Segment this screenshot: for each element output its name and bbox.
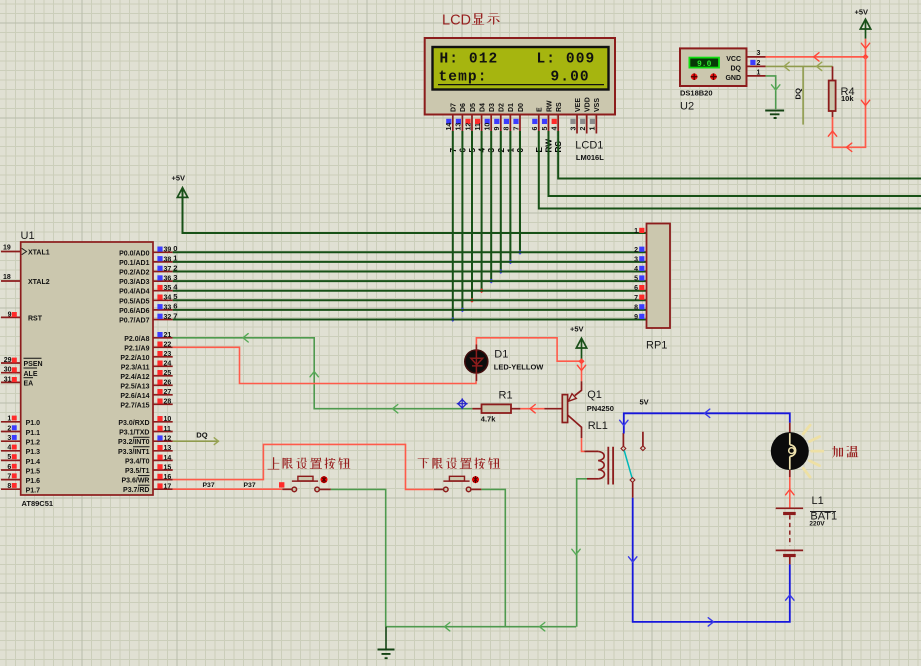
svg-text:3: 3 xyxy=(570,127,577,131)
wire SW1 to ground rail xyxy=(320,489,386,626)
wire LED anode to +5V node xyxy=(476,338,581,361)
svg-text:LCD1: LCD1 xyxy=(575,140,603,152)
label LCD显示 title xyxy=(442,13,500,29)
svg-text:8: 8 xyxy=(634,304,638,311)
svg-text:7: 7 xyxy=(634,295,638,302)
pin 24 P2.3 xyxy=(153,361,173,368)
pin 1 U2 GND xyxy=(747,69,766,76)
net label 5 xyxy=(173,292,178,301)
wire U2 GND to ground xyxy=(766,76,780,109)
svg-text:LED-YELLOW: LED-YELLOW xyxy=(494,363,544,372)
button SW2 下限 xyxy=(443,476,479,492)
svg-text:P3.4/T0: P3.4/T0 xyxy=(125,458,150,465)
wire Q1 collector to coil xyxy=(582,438,585,451)
svg-text:P0.7/AD7: P0.7/AD7 xyxy=(119,318,149,325)
pin 25 P2.4 xyxy=(153,370,173,377)
svg-text:29: 29 xyxy=(4,357,12,364)
svg-text:GND: GND xyxy=(725,75,741,82)
net label 5V xyxy=(640,398,649,407)
svg-text:10k: 10k xyxy=(841,94,854,103)
svg-text:1: 1 xyxy=(757,69,761,76)
svg-text:37: 37 xyxy=(164,266,172,273)
svg-text:4: 4 xyxy=(552,127,559,131)
wire P3.6 to button SW2 xyxy=(173,444,444,489)
svg-text:25: 25 xyxy=(164,370,172,377)
svg-text:1: 1 xyxy=(634,228,638,235)
pin 4 lcd RS xyxy=(552,115,559,132)
pin 1 P1.0 xyxy=(1,416,21,423)
pin 13 P3.3 xyxy=(153,445,173,452)
svg-text:22: 22 xyxy=(164,342,172,349)
wire lcd D3 to P0.3 xyxy=(490,131,492,281)
pin 35 P0.4 xyxy=(153,285,173,292)
wire P0.0 to RP1 pin2 xyxy=(173,251,647,253)
junction D7/P0.7 xyxy=(450,317,455,322)
wire P0.6 to RP1 pin8 xyxy=(173,309,647,311)
pin 12 lcd D5 xyxy=(465,115,472,132)
svg-text:RP1: RP1 xyxy=(646,340,667,352)
wire P3.7 to button SW1 xyxy=(173,488,292,490)
svg-text:3: 3 xyxy=(7,435,11,442)
svg-text:28: 28 xyxy=(164,399,172,406)
svg-text:+5V: +5V xyxy=(172,174,186,183)
relay NO contact xyxy=(630,478,635,498)
pin 3 P1.2 xyxy=(1,435,21,442)
svg-text:RS: RS xyxy=(556,102,563,112)
wire P0.1 to RP1 pin3 xyxy=(173,261,647,263)
wire lcd RW to right edge xyxy=(549,131,921,196)
pin 9 RST xyxy=(1,311,21,318)
svg-text:D6: D6 xyxy=(460,103,467,112)
svg-text:P1.7: P1.7 xyxy=(26,488,41,495)
svg-text:6: 6 xyxy=(634,285,638,292)
relay NC contact stub xyxy=(640,432,645,451)
svg-text:RL1: RL1 xyxy=(588,420,608,432)
svg-text:17: 17 xyxy=(164,484,172,491)
svg-text:P2.7/A15: P2.7/A15 xyxy=(120,402,149,409)
svg-text:P1.0: P1.0 xyxy=(26,420,41,427)
net label P37 xyxy=(203,482,215,489)
ground (bottom) xyxy=(378,627,395,659)
net label 4 xyxy=(478,148,487,153)
ground (top right) xyxy=(765,111,784,119)
pin 7 P1.6 xyxy=(1,473,21,480)
svg-text:XTAL2: XTAL2 xyxy=(28,279,50,286)
pin 33 P0.6 xyxy=(153,304,173,311)
junction D0/P0.0 xyxy=(518,250,523,255)
svg-text:P37: P37 xyxy=(244,482,256,489)
relay common contact xyxy=(621,433,626,451)
transistor Q1 PN4250 xyxy=(544,381,614,438)
pin 14 lcd D7 xyxy=(446,115,453,132)
wire +5V rail to RP1 pin1 xyxy=(183,189,647,234)
svg-text:U2: U2 xyxy=(680,101,694,113)
svg-text:P3.0/RXD: P3.0/RXD xyxy=(118,420,149,427)
svg-text:VCC: VCC xyxy=(726,56,741,63)
svg-text:P1.6: P1.6 xyxy=(26,478,41,485)
svg-text:L1: L1 xyxy=(812,495,824,507)
lcd LCD1 LM016L xyxy=(425,38,615,162)
resistor R4 10k xyxy=(829,66,855,117)
svg-text:P3.2/INT0: P3.2/INT0 xyxy=(118,439,150,446)
wire P0.4 to RP1 pin6 xyxy=(173,290,647,292)
svg-text:12: 12 xyxy=(164,436,172,443)
svg-text:EA: EA xyxy=(24,381,34,388)
pin 3 U2 VCC xyxy=(747,50,766,57)
pin 26 P2.5 xyxy=(153,380,173,387)
svg-text:1: 1 xyxy=(7,416,11,423)
pin 2 RP1 xyxy=(634,247,644,254)
button SW1 上限 xyxy=(292,476,328,492)
wire P0.3 to RP1 pin5 xyxy=(173,280,647,282)
svg-text:32: 32 xyxy=(164,314,172,321)
wire lcd D2 to P0.2 xyxy=(500,131,502,272)
svg-text:P0.5/AD5: P0.5/AD5 xyxy=(119,298,149,305)
svg-text:31: 31 xyxy=(4,376,12,383)
svg-text:19: 19 xyxy=(3,244,11,251)
svg-text:P0.2/AD2: P0.2/AD2 xyxy=(119,270,149,277)
svg-text:8: 8 xyxy=(504,127,511,131)
svg-text:11: 11 xyxy=(475,123,482,131)
svg-text:P3.1/TXD: P3.1/TXD xyxy=(119,430,149,437)
pin 4 P1.3 xyxy=(1,445,21,452)
net label 2 xyxy=(497,148,506,153)
pin 15 P3.5 xyxy=(153,464,173,471)
wire SW2 to ground rail xyxy=(471,489,505,626)
pin 8 P1.7 xyxy=(1,483,21,490)
svg-text:3: 3 xyxy=(634,256,638,263)
svg-text:P1.5: P1.5 xyxy=(26,468,41,475)
wire DQ from P3.2 xyxy=(173,438,219,445)
svg-text:5: 5 xyxy=(542,127,549,131)
wire lcd D7 to P0.7 xyxy=(452,131,454,320)
svg-text:+5V: +5V xyxy=(855,8,869,17)
net label 0 xyxy=(173,244,177,253)
svg-text:Q1: Q1 xyxy=(587,389,602,401)
svg-text:AT89C51: AT89C51 xyxy=(22,499,54,508)
svg-text:P2.0/A8: P2.0/A8 xyxy=(124,336,149,343)
svg-text:35: 35 xyxy=(164,285,172,292)
pin 5 RP1 xyxy=(634,275,644,282)
net label RS xyxy=(554,141,563,153)
svg-text:DQ: DQ xyxy=(794,88,803,99)
svg-text:VEE: VEE xyxy=(575,98,582,112)
junction D1/P0.1 xyxy=(508,259,513,264)
net label 2 xyxy=(173,263,177,272)
svg-text:+5V: +5V xyxy=(570,325,584,334)
pin 34 P0.5 xyxy=(153,295,173,302)
svg-text:4.7k: 4.7k xyxy=(481,415,496,424)
pin 16 P3.6 xyxy=(153,474,173,481)
pin 27 P2.6 xyxy=(153,389,173,396)
pin 12 P3.2 xyxy=(153,435,173,442)
svg-text:6: 6 xyxy=(532,127,539,131)
pin 3 lcd VEE xyxy=(570,115,577,134)
svg-text:D2: D2 xyxy=(499,103,506,112)
state square P37 net xyxy=(279,482,284,487)
svg-text:LM016L: LM016L xyxy=(576,153,604,162)
svg-text:P2.3/A11: P2.3/A11 xyxy=(121,364,150,371)
svg-text:11: 11 xyxy=(164,426,172,433)
svg-text:D5: D5 xyxy=(470,103,477,112)
relay blade (cyan) xyxy=(624,451,632,478)
svg-text:D3: D3 xyxy=(489,103,496,112)
pin 19 XTAL1 xyxy=(1,244,21,251)
pin 5 lcd RW xyxy=(542,115,549,132)
sensor U2 DS18B20 xyxy=(680,48,747,112)
pin 31 EA xyxy=(1,376,21,383)
wire lamp to battery + xyxy=(786,477,794,508)
wire R1 to Q1 base xyxy=(520,405,544,413)
junction D2/P0.2 xyxy=(498,269,503,274)
pin 9 RP1 xyxy=(634,314,644,321)
svg-text:30: 30 xyxy=(4,367,12,374)
svg-text:14: 14 xyxy=(164,455,172,462)
pin 7 RP1 xyxy=(634,295,644,302)
svg-text:PN4250: PN4250 xyxy=(587,404,614,413)
net label 6 xyxy=(173,302,177,311)
relay core xyxy=(608,447,613,485)
svg-text:P2.2/A10: P2.2/A10 xyxy=(120,355,149,362)
junction D5/P0.5 xyxy=(470,298,475,303)
wire P2.0 to R1 left xyxy=(173,334,473,413)
pin 14 P3.4 xyxy=(153,455,173,462)
pin 37 P0.2 xyxy=(153,266,173,273)
label 加温 xyxy=(832,446,858,458)
svg-text:16: 16 xyxy=(164,474,172,481)
svg-text:D1: D1 xyxy=(508,103,515,112)
svg-text:1: 1 xyxy=(590,127,597,131)
svg-text:9.00: 9.00 xyxy=(551,70,590,86)
svg-text:13: 13 xyxy=(164,445,172,452)
svg-text:9.0: 9.0 xyxy=(697,60,712,69)
svg-text:220V: 220V xyxy=(809,521,825,528)
svg-text:P2.1/A9: P2.1/A9 xyxy=(124,345,149,352)
wire DQ net stub down xyxy=(802,66,804,124)
pin 9 lcd D2 xyxy=(494,115,501,132)
svg-text:LCD: LCD xyxy=(442,13,471,29)
svg-text:P1.1: P1.1 xyxy=(26,430,41,437)
svg-text:2: 2 xyxy=(634,247,638,254)
pin 2 lcd VDD xyxy=(580,115,587,134)
wire P0.5 to RP1 pin7 xyxy=(173,299,647,301)
svg-text:2: 2 xyxy=(757,60,761,67)
svg-text:33: 33 xyxy=(164,304,172,311)
svg-text:R1: R1 xyxy=(499,390,513,402)
svg-text:P0.1/AD1: P0.1/AD1 xyxy=(119,260,149,267)
wire lcd D5 to P0.5 xyxy=(471,131,473,300)
svg-text:D0: D0 xyxy=(518,103,525,112)
svg-text:P0.4/AD4: P0.4/AD4 xyxy=(119,289,149,296)
svg-text:VSS: VSS xyxy=(594,98,601,112)
pin 18 XTAL2 xyxy=(1,274,21,281)
led D1 LED-YELLOW xyxy=(465,345,544,382)
net label 6 xyxy=(458,148,467,153)
relay RL1 coil xyxy=(585,451,605,478)
svg-text:P0.3/AD3: P0.3/AD3 xyxy=(119,279,149,286)
pin 13 lcd D6 xyxy=(456,115,463,132)
wire 5V net: relay common to lamp top xyxy=(620,409,790,433)
wire relay NO to battery - (blue loop) xyxy=(629,498,795,626)
wire lcd RS to right edge xyxy=(558,131,921,179)
net label 1 xyxy=(173,254,178,263)
svg-text:D1: D1 xyxy=(494,349,508,361)
svg-text:5: 5 xyxy=(7,454,11,461)
pin 6 RP1 xyxy=(634,285,644,292)
svg-text:5: 5 xyxy=(634,276,638,283)
svg-text:4: 4 xyxy=(634,266,638,273)
wire P0.7 to RP1 pin9 xyxy=(173,319,647,321)
net label 4 xyxy=(173,283,178,292)
pin 22 P2.1 xyxy=(153,342,173,349)
svg-text:34: 34 xyxy=(164,295,172,302)
wire P2.1 to LED cathode xyxy=(173,347,476,383)
pin 30 ALE xyxy=(1,367,21,374)
pin 8 lcd D1 xyxy=(504,115,511,132)
svg-text:3: 3 xyxy=(757,50,761,57)
junction D6/P0.6 xyxy=(460,307,465,312)
svg-text:D4: D4 xyxy=(479,103,486,112)
svg-text:12: 12 xyxy=(465,123,472,131)
pin 17 P3.7 xyxy=(153,483,173,490)
svg-text:H: 012: H: 012 xyxy=(440,52,499,68)
svg-text:18: 18 xyxy=(3,274,11,281)
svg-text:7: 7 xyxy=(513,127,520,131)
pin 10 lcd D3 xyxy=(485,115,492,132)
pin 3 RP1 xyxy=(634,256,644,263)
wire lcd D4 to P0.4 xyxy=(481,131,483,291)
junction D3/P0.3 xyxy=(489,279,494,284)
pin 6 lcd E xyxy=(532,115,539,132)
svg-text:P2.4/A12: P2.4/A12 xyxy=(120,374,149,381)
label 上限设置按钮 xyxy=(268,457,351,469)
pin 8 RP1 xyxy=(634,304,644,311)
svg-text:D7: D7 xyxy=(451,103,458,112)
svg-text:P37: P37 xyxy=(203,482,215,489)
pin 29 PSEN xyxy=(1,357,21,364)
lamp L1 (加温) xyxy=(771,423,823,477)
svg-text:2: 2 xyxy=(7,425,11,432)
pin 6 P1.5 xyxy=(1,464,21,471)
net label 0 xyxy=(516,148,525,153)
svg-text:P3.5/T1: P3.5/T1 xyxy=(125,468,150,475)
pin 1 lcd VSS xyxy=(590,115,597,134)
svg-text:8: 8 xyxy=(7,483,11,490)
pin 21 P2.0 xyxy=(153,332,173,339)
svg-text:13: 13 xyxy=(456,123,463,131)
svg-text:RST: RST xyxy=(28,316,43,323)
wire +5V down to R4 loop xyxy=(828,57,869,152)
svg-text:9: 9 xyxy=(634,314,638,321)
svg-text:P3.6/WR: P3.6/WR xyxy=(121,478,149,485)
power +5V left xyxy=(172,174,188,198)
svg-text:P1.4: P1.4 xyxy=(26,459,41,466)
svg-text:RW: RW xyxy=(546,100,553,112)
pin 11 lcd D4 xyxy=(475,115,482,132)
net label DQ xyxy=(196,431,207,440)
wire P0.2 to RP1 pin4 xyxy=(173,271,647,273)
svg-text:P2.5/A13: P2.5/A13 xyxy=(120,383,149,390)
net label P37 (second) xyxy=(244,482,256,489)
svg-text:6: 6 xyxy=(7,464,11,471)
svg-text:9: 9 xyxy=(8,311,12,318)
pin 2 P1.1 xyxy=(1,425,21,432)
label L1 xyxy=(812,495,824,507)
pin 28 P2.7 xyxy=(153,399,173,406)
pin 23 P2.2 xyxy=(153,351,173,358)
svg-text:38: 38 xyxy=(164,256,172,263)
svg-text:14: 14 xyxy=(446,123,453,131)
wire +5V to U2 VCC xyxy=(766,39,870,61)
svg-text:4: 4 xyxy=(7,445,11,452)
label 下限设置按钮 xyxy=(418,457,500,469)
respack RP1 xyxy=(646,224,670,352)
pin 32 P0.7 xyxy=(153,314,173,321)
net label E xyxy=(535,147,544,153)
wire relay coil to ground rail xyxy=(572,479,587,627)
svg-text:temp:: temp: xyxy=(439,70,488,86)
pin 4 RP1 xyxy=(634,266,644,273)
svg-text:DQ: DQ xyxy=(731,66,742,73)
junction D4/P0.4 xyxy=(479,288,484,293)
battery BAT1 xyxy=(776,508,837,564)
svg-text:23: 23 xyxy=(164,351,172,358)
svg-text:10: 10 xyxy=(485,123,492,131)
svg-text:P3.7/RD: P3.7/RD xyxy=(123,487,149,494)
net label 7 xyxy=(449,148,458,153)
svg-text:VDD: VDD xyxy=(585,97,592,112)
net label 5 xyxy=(468,148,477,153)
svg-text:39: 39 xyxy=(164,247,172,254)
svg-text:9: 9 xyxy=(494,127,501,131)
wire lcd D1 to P0.1 xyxy=(509,131,511,262)
svg-text:DS18B20: DS18B20 xyxy=(680,89,713,98)
power +5V middle xyxy=(570,325,587,362)
net label RW xyxy=(545,139,554,153)
svg-text:U1: U1 xyxy=(21,230,35,242)
svg-text:ALE: ALE xyxy=(24,371,38,378)
wire +5V to Q1 emitter xyxy=(577,358,585,381)
svg-text:P1.3: P1.3 xyxy=(26,449,41,456)
node marker (blue) at R1 left xyxy=(457,398,468,409)
svg-text:L: 009: L: 009 xyxy=(537,52,596,68)
svg-text:DQ: DQ xyxy=(196,431,207,440)
svg-text:24: 24 xyxy=(164,361,172,368)
net label 7 xyxy=(173,311,177,320)
mcu U1 AT89C51 xyxy=(21,230,154,508)
svg-text:XTAL1: XTAL1 xyxy=(28,250,50,257)
pin 38 P0.1 xyxy=(153,256,173,263)
pin 2 U2 DQ xyxy=(747,60,766,67)
pin 7 lcd D0 xyxy=(513,115,520,132)
svg-text:26: 26 xyxy=(164,380,172,387)
svg-text:P3.3/INT1: P3.3/INT1 xyxy=(118,449,150,456)
pin 10 P3.0 xyxy=(153,416,173,423)
svg-text:21: 21 xyxy=(164,332,172,339)
wire U2 DQ to R4 top xyxy=(766,62,833,70)
pin 36 P0.3 xyxy=(153,275,173,282)
svg-text:27: 27 xyxy=(164,389,172,396)
wire lcd E to right edge xyxy=(539,131,921,209)
svg-text:36: 36 xyxy=(164,276,172,283)
svg-text:P2.6/A14: P2.6/A14 xyxy=(120,393,149,400)
svg-text:P0.6/AD6: P0.6/AD6 xyxy=(119,308,149,315)
pin 5 P1.4 xyxy=(1,454,21,461)
svg-text:E: E xyxy=(537,107,544,112)
net label 3 xyxy=(487,148,496,153)
svg-text:2: 2 xyxy=(580,127,587,131)
wire lcd D0 to P0.0 xyxy=(519,131,521,252)
